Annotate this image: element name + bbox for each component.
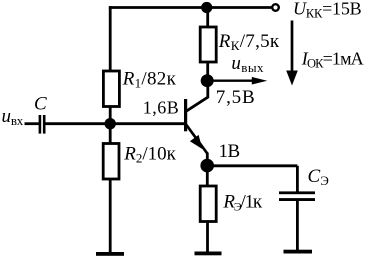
svg-text:uвх: uвх (2, 106, 24, 128)
svg-text:R1/82к: R1/82к (122, 68, 177, 90)
svg-text:uвых: uвых (231, 53, 264, 75)
svg-text:R2/10к: R2/10к (123, 144, 176, 166)
svg-text:1В: 1В (219, 141, 240, 162)
svg-text:IОК=1мА: IОК=1мА (301, 49, 364, 71)
svg-text:UКК=15В: UКК=15В (293, 0, 362, 20)
svg-text:RЭ/1к: RЭ/1к (222, 192, 263, 214)
svg-text:7,5В: 7,5В (216, 87, 256, 108)
svg-text:CЭ: CЭ (308, 166, 330, 188)
svg-text:1,6В: 1,6В (143, 98, 180, 118)
svg-text:RК/7,5к: RК/7,5к (218, 31, 280, 53)
svg-text:C: C (34, 94, 47, 115)
